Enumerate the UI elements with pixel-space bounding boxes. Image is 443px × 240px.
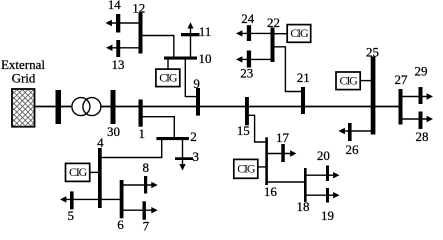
svg-text:28: 28	[416, 129, 429, 144]
svg-text:29: 29	[415, 64, 428, 79]
svg-text:4: 4	[97, 135, 104, 150]
svg-text:20: 20	[317, 148, 330, 163]
svg-text:8: 8	[142, 160, 149, 175]
svg-text:9: 9	[193, 76, 200, 91]
svg-text:19: 19	[321, 208, 334, 223]
svg-text:22: 22	[267, 15, 280, 30]
svg-text:13: 13	[112, 57, 125, 72]
svg-text:External: External	[1, 57, 45, 72]
svg-text:16: 16	[264, 184, 278, 199]
svg-text:18: 18	[297, 199, 310, 214]
svg-text:24: 24	[241, 11, 255, 26]
svg-text:Grid: Grid	[12, 71, 36, 86]
svg-text:15: 15	[237, 123, 250, 138]
svg-text:7: 7	[143, 219, 150, 233]
svg-text:2: 2	[190, 129, 197, 144]
svg-text:10: 10	[199, 51, 212, 66]
svg-text:6: 6	[117, 217, 124, 232]
svg-text:CIG: CIG	[69, 165, 88, 179]
svg-text:12: 12	[132, 1, 145, 16]
svg-text:3: 3	[193, 149, 200, 164]
svg-text:1: 1	[138, 126, 145, 141]
svg-text:CIG: CIG	[159, 71, 178, 85]
svg-text:CIG: CIG	[237, 162, 256, 176]
svg-text:17: 17	[276, 130, 290, 145]
svg-text:14: 14	[108, 0, 122, 12]
svg-text:5: 5	[67, 208, 74, 223]
svg-text:11: 11	[199, 24, 212, 39]
svg-text:CIG: CIG	[290, 26, 309, 40]
svg-text:27: 27	[395, 72, 409, 87]
svg-text:21: 21	[297, 70, 310, 85]
svg-text:CIG: CIG	[340, 74, 359, 88]
svg-text:26: 26	[346, 142, 360, 157]
svg-text:23: 23	[240, 66, 253, 81]
svg-text:30: 30	[107, 124, 120, 139]
svg-text:25: 25	[366, 45, 379, 60]
